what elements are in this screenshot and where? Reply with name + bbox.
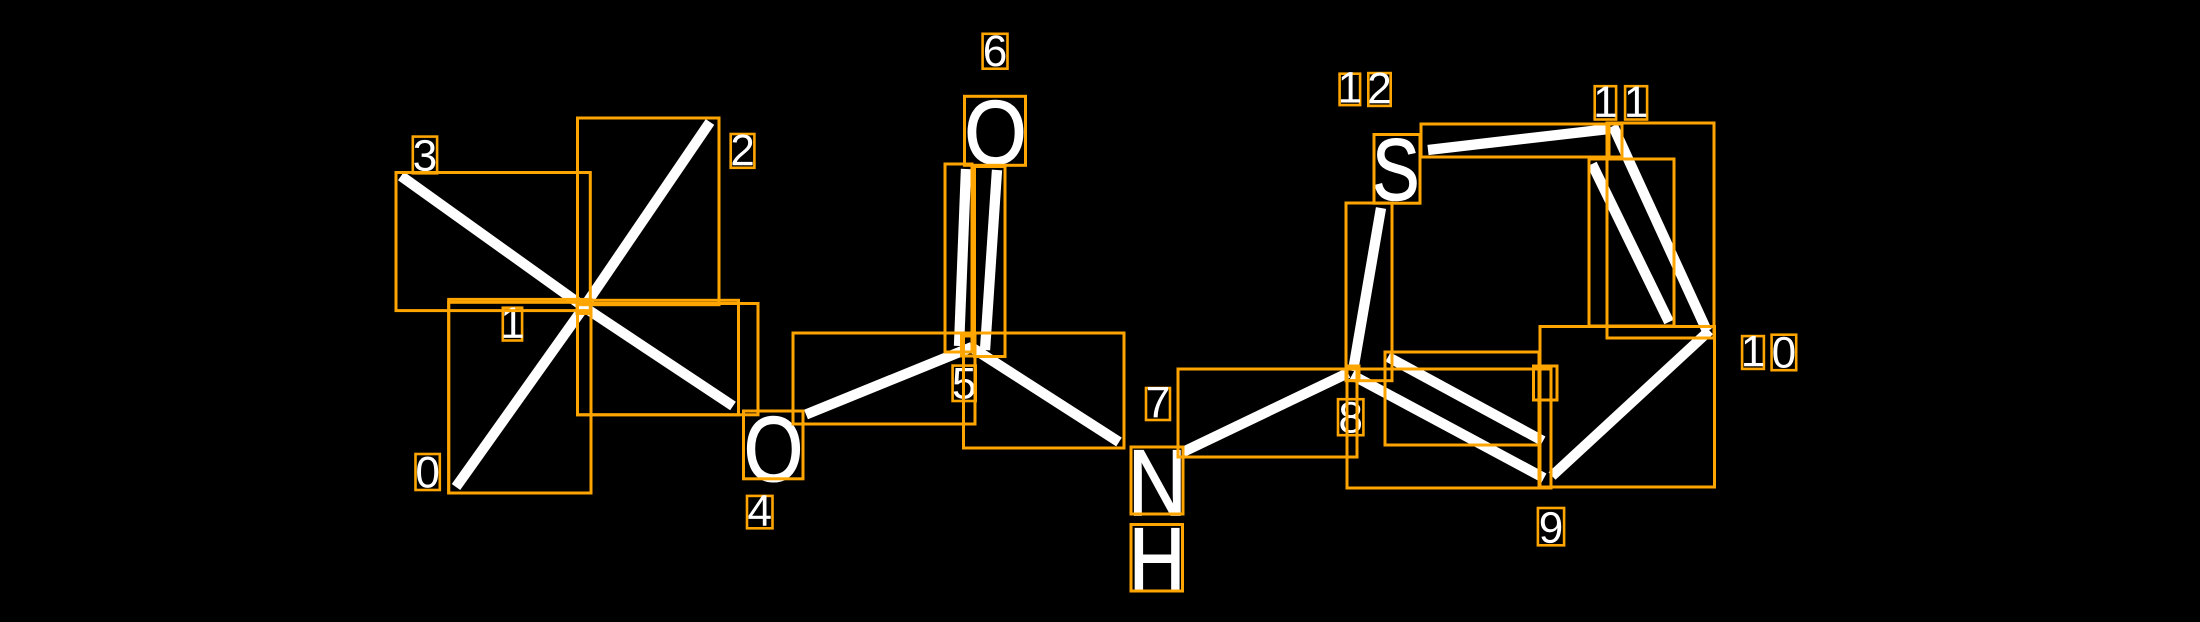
label 6 of atom O6 [983,34,1008,69]
box atom N7 H [1131,525,1183,592]
bond N7-C8 [1183,373,1348,452]
box C10=C11 inner [1589,159,1674,326]
bond O4-C5 [806,347,972,415]
box C8=C9 main a [1347,369,1539,488]
bond S12-C8 [1353,208,1381,371]
box bond C1-O4 a [578,300,739,415]
atom N7 label N [1134,451,1180,516]
label 11 of atom C11 second digit 1 [1625,86,1647,119]
label 8 of atom C8 [1338,399,1363,435]
bond C9-C10 [1552,331,1710,477]
label 12 of atom S12 digit 1 [1340,74,1361,105]
bond C11-S12 [1428,129,1609,150]
label 3 of atom C3 [413,137,437,174]
atom S12 label [1375,139,1416,201]
box bond C1-C2 [578,118,720,305]
box bond C1-C0 outer [449,299,591,493]
box atom C8 [1347,366,1360,381]
box bond C5-N7 [964,333,1125,448]
box bond C11-S12 [1421,124,1609,157]
bond C5-N7 [971,347,1119,442]
box bond N7-C8 [1178,369,1357,457]
box bond C1-O4 b [578,304,759,415]
label 4 of atom O4 [747,496,773,528]
box atom C11 [1609,124,1622,157]
atom O4 label [747,416,799,481]
box C10=C11 main [1607,123,1714,338]
double bond C8=C9 inner [1388,357,1543,441]
label 11 of atom C11 digit 1 [1595,86,1616,119]
label 10 of atom C10 digit 1 [1742,336,1764,369]
double bond C8=C9 main [1352,375,1544,478]
box atom C1 [577,300,591,313]
double bond C5=O6 line B [985,170,997,350]
box C8=C9 main b [1347,369,1551,488]
label 7 of atom N7 [1146,388,1170,420]
atom N7 label H [1135,528,1179,591]
bond C1-C0 [456,307,584,487]
box C8=C9 inner [1385,352,1539,445]
box bond C9-C10 [1540,327,1715,488]
double bond C10=C11 inner [1592,164,1669,322]
box bond S12-C8 [1346,203,1392,381]
box atom O4 [744,411,804,479]
box near C9 [1534,366,1558,400]
box atom S12 [1374,135,1420,204]
box bond C1-C3 [396,173,590,311]
box atom N7 N [1131,447,1183,514]
box atom O6 [965,96,1026,165]
label 12 of atom S12 digit 2 [1368,73,1390,106]
label 0 of atom C0 [416,454,440,490]
box atom C5 [962,336,976,356]
box bond C1-C0 inner [449,302,591,493]
bond C1-O4 [584,307,733,406]
atom O6 label [968,100,1023,164]
double bond C10=C11 main [1613,126,1707,331]
box bond O4-C5 [793,333,975,424]
label 10 of atom C10 digit 0 [1772,335,1797,371]
double bond C5=O6 line A [959,169,966,346]
label 9 of atom C9 [1538,508,1564,545]
bond C1-C2 [584,122,710,307]
label 1 of atom C1 [503,308,522,341]
label 2 of atom C2 [731,134,755,168]
box C5=O6 line A [945,164,972,352]
label 5 of atom C5 [953,366,976,401]
bond C1-C3 [401,176,584,307]
box C5=O6 line B [975,167,1006,357]
